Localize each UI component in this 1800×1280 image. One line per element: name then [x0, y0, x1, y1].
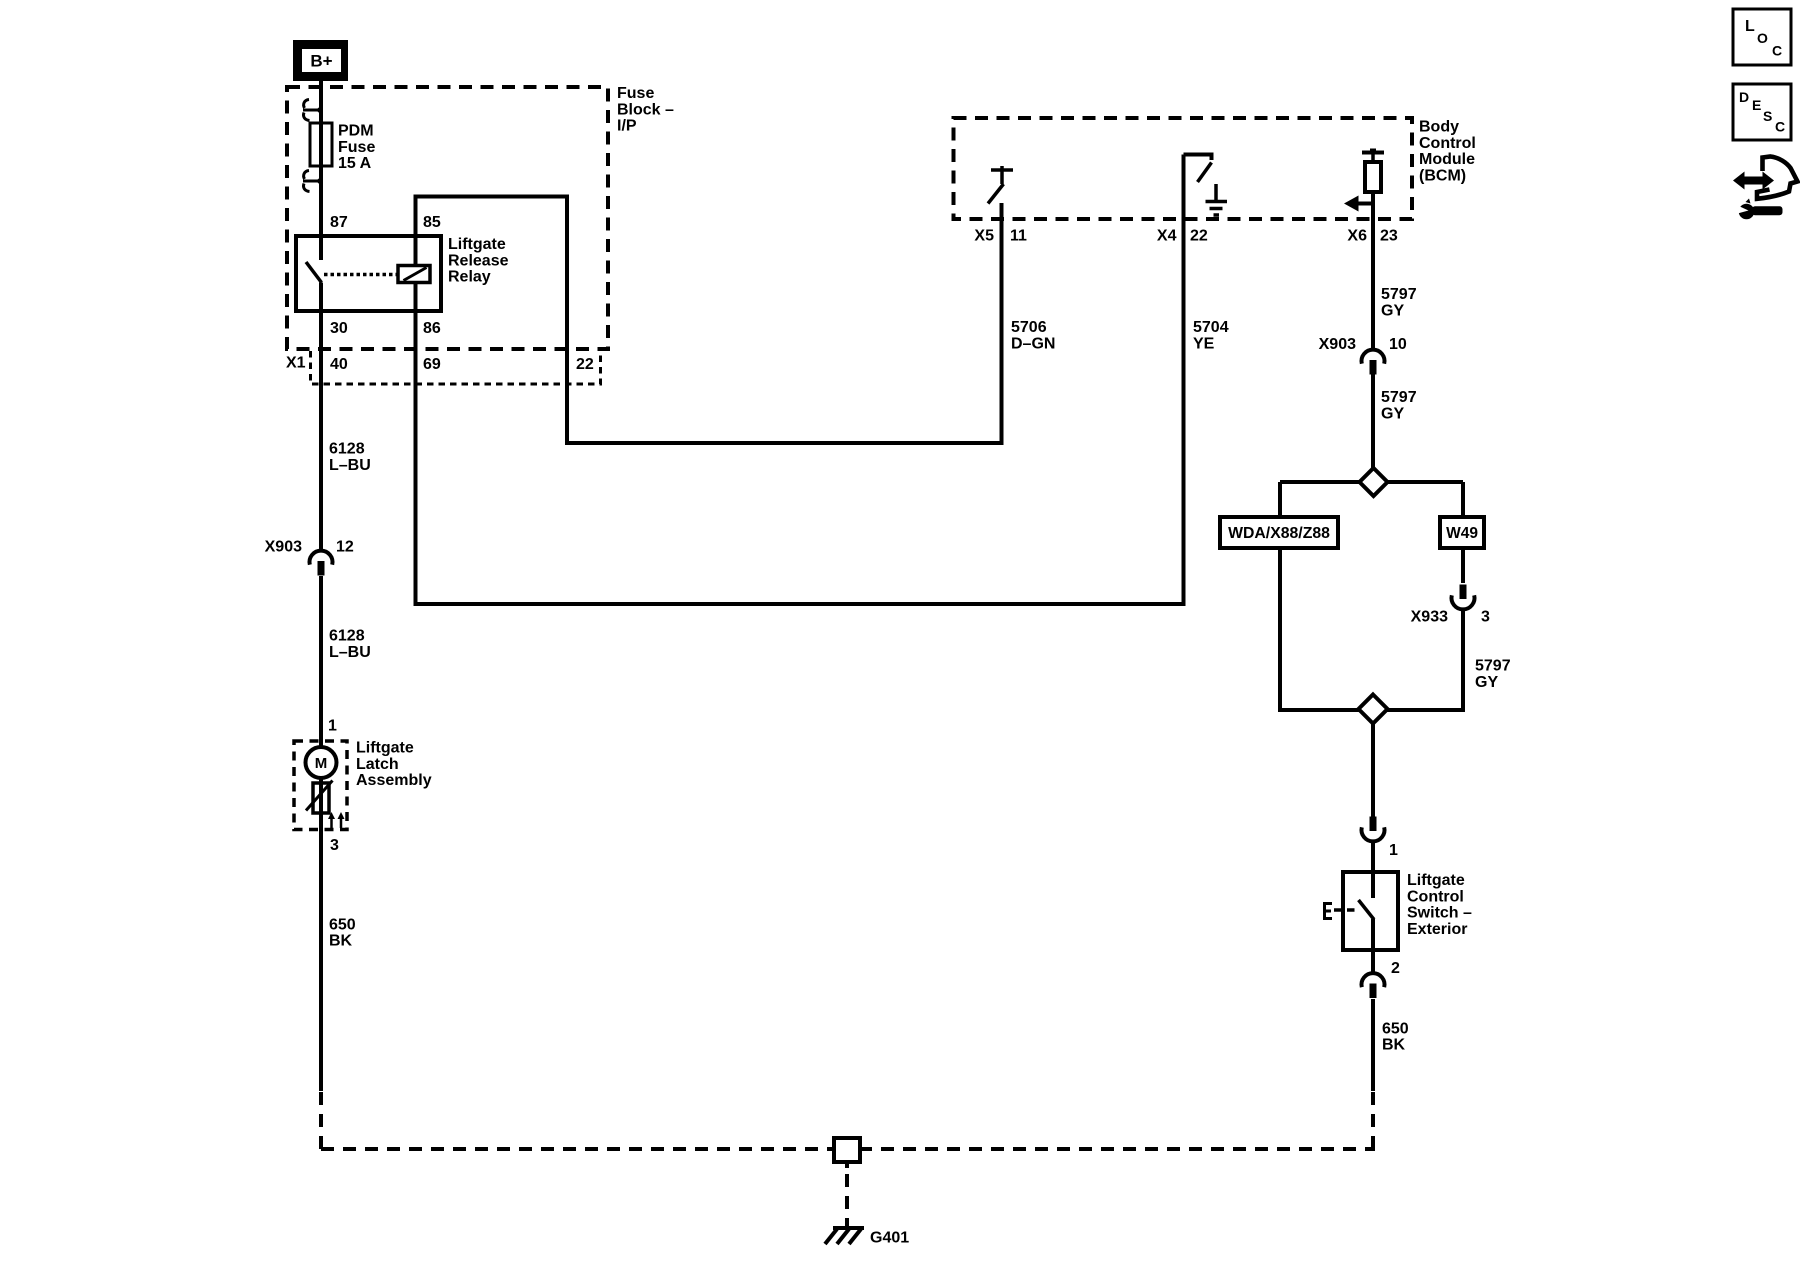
svg-text:C: C — [1772, 42, 1782, 58]
svg-text:L–BU: L–BU — [329, 644, 371, 661]
svg-text:M: M — [315, 755, 328, 772]
svg-text:5706: 5706 — [1011, 319, 1047, 336]
svg-text:YE: YE — [1193, 336, 1215, 353]
svg-text:Control: Control — [1419, 135, 1476, 152]
svg-text:X5: X5 — [974, 228, 994, 245]
svg-text:650: 650 — [1382, 1021, 1409, 1038]
svg-text:86: 86 — [423, 320, 441, 337]
svg-text:Exterior: Exterior — [1407, 921, 1467, 938]
svg-text:3: 3 — [1481, 609, 1490, 626]
svg-text:D–GN: D–GN — [1011, 336, 1055, 353]
svg-text:X6: X6 — [1347, 228, 1367, 245]
svg-text:Assembly: Assembly — [356, 772, 432, 789]
svg-text:BK: BK — [1382, 1037, 1406, 1054]
svg-text:5797: 5797 — [1381, 389, 1417, 406]
svg-text:I/P: I/P — [617, 118, 637, 135]
svg-text:S: S — [1763, 108, 1772, 124]
svg-text:69: 69 — [423, 356, 441, 373]
svg-text:15 A: 15 A — [338, 155, 372, 172]
svg-text:X933: X933 — [1411, 609, 1448, 626]
svg-text:X4: X4 — [1157, 228, 1177, 245]
svg-text:23: 23 — [1380, 228, 1398, 245]
svg-text:L: L — [1745, 18, 1755, 35]
svg-text:D: D — [1739, 89, 1749, 105]
svg-text:22: 22 — [1190, 228, 1208, 245]
svg-text:G401: G401 — [870, 1230, 909, 1247]
svg-text:40: 40 — [330, 356, 348, 373]
svg-text:X903: X903 — [265, 539, 302, 556]
svg-text:5797: 5797 — [1475, 658, 1511, 675]
svg-text:10: 10 — [1389, 336, 1407, 353]
svg-text:Switch –: Switch – — [1407, 905, 1472, 922]
svg-text:Body: Body — [1419, 119, 1459, 136]
svg-text:PDM: PDM — [338, 123, 374, 140]
svg-text:Fuse: Fuse — [338, 139, 375, 156]
svg-text:3: 3 — [330, 837, 339, 854]
svg-text:11: 11 — [1010, 228, 1027, 245]
svg-text:Relay: Relay — [448, 269, 491, 286]
svg-text:Module: Module — [1419, 151, 1475, 168]
svg-text:GY: GY — [1381, 406, 1404, 423]
svg-text:5797: 5797 — [1381, 286, 1417, 303]
svg-text:6128: 6128 — [329, 441, 365, 458]
svg-text:Latch: Latch — [356, 756, 399, 773]
svg-text:Block –: Block – — [617, 101, 674, 118]
svg-text:X1: X1 — [286, 355, 306, 372]
svg-text:Liftgate: Liftgate — [356, 740, 414, 757]
svg-text:(BCM): (BCM) — [1419, 167, 1466, 184]
svg-text:GY: GY — [1381, 303, 1404, 320]
svg-text:O: O — [1757, 30, 1768, 46]
svg-text:Fuse: Fuse — [617, 85, 654, 102]
svg-text:L–BU: L–BU — [329, 457, 371, 474]
svg-text:6128: 6128 — [329, 628, 365, 645]
svg-text:650: 650 — [329, 916, 356, 933]
svg-text:GY: GY — [1475, 674, 1498, 691]
svg-text:12: 12 — [336, 539, 354, 556]
svg-text:WDA/X88/Z88: WDA/X88/Z88 — [1228, 525, 1330, 542]
svg-text:1: 1 — [1389, 842, 1398, 859]
svg-text:30: 30 — [330, 320, 348, 337]
svg-text:2: 2 — [1391, 960, 1400, 977]
svg-text:C: C — [1775, 118, 1785, 134]
svg-text:87: 87 — [330, 214, 348, 231]
svg-text:B+: B+ — [310, 52, 332, 71]
svg-text:22: 22 — [576, 356, 594, 373]
svg-text:Liftgate: Liftgate — [448, 236, 506, 253]
svg-text:1: 1 — [328, 718, 337, 735]
svg-text:Control: Control — [1407, 888, 1464, 905]
svg-text:W49: W49 — [1446, 525, 1478, 542]
svg-text:5704: 5704 — [1193, 319, 1229, 336]
svg-text:Release: Release — [448, 252, 509, 269]
svg-text:85: 85 — [423, 214, 441, 231]
svg-text:Liftgate: Liftgate — [1407, 872, 1465, 889]
svg-text:BK: BK — [329, 933, 353, 950]
svg-text:E: E — [1752, 97, 1761, 113]
svg-text:X903: X903 — [1319, 336, 1356, 353]
